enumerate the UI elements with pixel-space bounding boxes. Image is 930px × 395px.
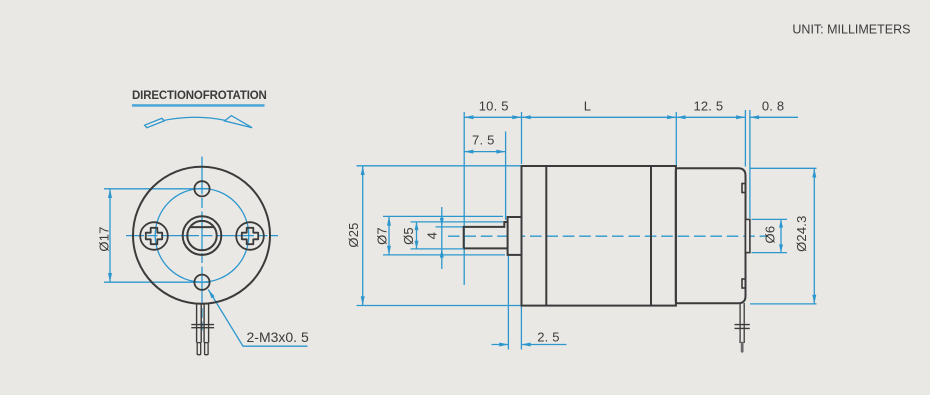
left screw cross xyxy=(146,228,162,244)
dim 4 arrows xyxy=(440,218,444,258)
dia17 arrows xyxy=(108,189,112,282)
dia7 dimension line xyxy=(388,216,390,255)
side pin xyxy=(740,303,744,343)
motor face fill xyxy=(133,167,270,304)
top dims extension line shaft tip xyxy=(463,112,465,285)
dim 4 dimension line xyxy=(441,207,443,269)
svg-text:10. 5: 10. 5 xyxy=(479,98,509,113)
svg-text:4: 4 xyxy=(425,232,440,239)
dia24.3 top extension line xyxy=(750,167,817,169)
dia7 arrows xyxy=(387,216,391,255)
front pin tips xyxy=(197,343,201,355)
dia17 bottom extension line xyxy=(104,281,210,283)
dim 2.5 line left tail xyxy=(492,344,509,346)
dia5 top extension line xyxy=(411,221,504,223)
dia7 bottom extension line xyxy=(383,254,505,256)
dia25 bottom extension line xyxy=(357,305,522,307)
svg-text:2-M3x0. 5: 2-M3x0. 5 xyxy=(247,329,309,345)
dia5 bottom extension line xyxy=(411,248,464,250)
dim 2.5 extension line right xyxy=(520,307,522,350)
dim 2.5 arrows xyxy=(499,343,530,347)
M3 leader arrow xyxy=(208,290,214,299)
dia5 dimension line xyxy=(416,222,418,249)
gearbox body fill xyxy=(522,166,676,306)
gearbox rear plate line xyxy=(650,166,652,306)
dia24.3 dimension line xyxy=(813,168,815,304)
bolt circle xyxy=(155,189,249,283)
dim 0.8 tail xyxy=(750,116,798,118)
shaft boss circle xyxy=(183,216,222,255)
left screw circle xyxy=(140,222,168,250)
dim 2.5 line right tail xyxy=(521,344,566,346)
dia6 top extension line xyxy=(752,218,788,220)
dim 2.5 extension line left xyxy=(507,256,509,350)
motor body fill xyxy=(676,168,746,303)
svg-text:DIRECTIONOFROTATION: DIRECTIONOFROTATION xyxy=(132,90,267,102)
dim 7.5 line xyxy=(464,151,505,153)
motor top notch xyxy=(742,184,745,193)
svg-text:2. 5: 2. 5 xyxy=(537,329,559,344)
dia24.3 arrows xyxy=(812,168,816,304)
dia6 dimension line xyxy=(780,219,782,252)
svg-text:12. 5: 12. 5 xyxy=(693,98,723,113)
title underline xyxy=(132,104,265,107)
svg-text:0. 8: 0. 8 xyxy=(762,98,784,113)
svg-text:Ø6: Ø6 xyxy=(762,226,777,244)
side pin flange xyxy=(735,325,750,329)
right screw cross xyxy=(242,228,258,244)
gearbox body xyxy=(522,166,676,306)
dim 7.5 extension line xyxy=(505,132,507,220)
dia25 arrows xyxy=(361,166,365,306)
front pins xyxy=(197,303,209,342)
top dimension line xyxy=(464,116,745,118)
front view horizontal centerline xyxy=(126,235,278,237)
motor body xyxy=(676,168,746,303)
motor rear boss xyxy=(746,219,750,252)
rotation arrow arc xyxy=(163,117,225,120)
output shaft xyxy=(464,222,508,248)
svg-text:Ø25: Ø25 xyxy=(346,222,361,247)
front view vertical centerline xyxy=(201,157,203,331)
right screw circle xyxy=(236,222,264,250)
shaft boss xyxy=(508,217,522,255)
svg-text:UNIT: MILLIMETERS: UNIT: MILLIMETERS xyxy=(792,22,910,36)
bottom mounting hole xyxy=(194,275,209,290)
top dims extension line motor rear xyxy=(744,110,746,167)
dia7 top extension line xyxy=(383,215,503,217)
side pin tip xyxy=(741,343,744,351)
dim 7.5 arrows xyxy=(464,150,505,154)
side view centerline xyxy=(448,235,768,237)
top mounting hole xyxy=(194,181,209,196)
shaft flat chord xyxy=(190,226,214,228)
svg-text:Ø24.3: Ø24.3 xyxy=(794,215,809,251)
dia6 bottom extension line xyxy=(752,252,788,254)
dia5 arrows xyxy=(415,222,419,249)
rotation arrow left head xyxy=(145,118,165,127)
dia17 top extension line xyxy=(104,188,210,190)
dia25 top extension line xyxy=(357,165,522,167)
top dims extension line gearbox-motor joint xyxy=(675,112,677,167)
dia6 arrows xyxy=(779,219,783,252)
dim 4 top extension line xyxy=(436,226,464,228)
front pin flange xyxy=(191,325,214,328)
svg-text:Ø7: Ø7 xyxy=(375,227,390,245)
rotation arrow right head xyxy=(225,116,253,128)
gearbox front plate line xyxy=(545,166,547,306)
svg-text:L: L xyxy=(584,98,591,113)
top dim arrows xyxy=(464,115,473,119)
svg-text:7. 5: 7. 5 xyxy=(472,133,494,148)
top dims extension line boss end xyxy=(749,110,751,218)
svg-text:Ø17: Ø17 xyxy=(97,226,112,251)
motor bottom notch xyxy=(742,279,745,288)
dia24.3 bottom extension line xyxy=(750,303,817,305)
dia25 dimension line xyxy=(362,166,364,306)
svg-text:Ø5: Ø5 xyxy=(401,227,416,245)
dia17 dimension line xyxy=(109,189,111,282)
top dims extension line gearbox face xyxy=(521,112,523,164)
shaft circle xyxy=(187,221,216,250)
motor face outer circle xyxy=(133,167,270,304)
M3 leader line xyxy=(208,290,307,347)
